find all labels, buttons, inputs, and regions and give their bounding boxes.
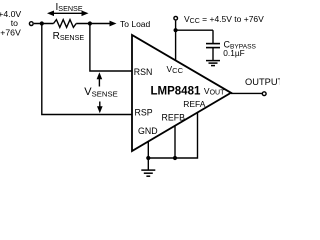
svg-text:REFB: REFB — [162, 113, 186, 123]
svg-text:ISENSE: ISENSE — [56, 2, 83, 13]
svg-text:GND: GND — [138, 126, 158, 136]
svg-text:To Load: To Load — [120, 19, 151, 29]
svg-text:RSP: RSP — [135, 108, 153, 118]
svg-text:0.1µF: 0.1µF — [223, 48, 244, 58]
svg-text:LMP8481: LMP8481 — [151, 86, 201, 98]
svg-text:VCC: VCC — [167, 64, 184, 75]
svg-text:RSN: RSN — [134, 67, 153, 77]
svg-text:REFA: REFA — [183, 99, 206, 109]
svg-text:OUTPUT: OUTPUT — [245, 77, 280, 87]
svg-text:+76V: +76V — [0, 27, 21, 37]
svg-text:RSENSE: RSENSE — [53, 31, 85, 42]
